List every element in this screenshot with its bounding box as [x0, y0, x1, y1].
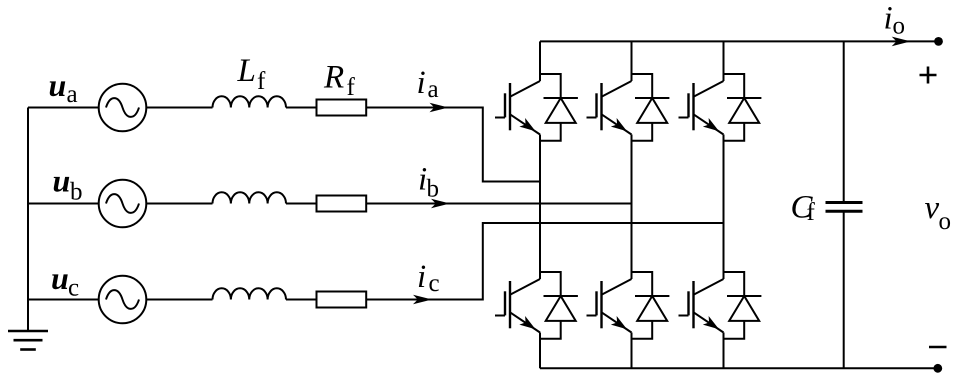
diode antiparallel (lower IGBT leg 2) — [635, 296, 669, 321]
IGBT lower IGBT leg 1 — [495, 271, 540, 340]
IGBT lower IGBT leg 2 — [587, 271, 632, 340]
wire diode bottom to emitter node (lower IGBT leg 2) — [632, 321, 653, 339]
wire leg 3 midpoint vertical — [723, 141, 725, 273]
resistor R_f (phase a) — [317, 100, 367, 116]
IGBT upper IGBT leg 2 — [587, 73, 632, 142]
wire collector node corner to diode top (upper IGBT leg 1) — [540, 74, 561, 98]
wire phase c with jog up to leg 3 midpoint — [366, 223, 723, 300]
svg-text:u: u — [51, 260, 69, 296]
arrow current i_c — [413, 295, 432, 305]
IGBT upper IGBT leg 3 — [679, 73, 724, 142]
svg-text:i: i — [417, 259, 426, 295]
label i_a — [417, 65, 439, 103]
svg-text:u: u — [53, 163, 71, 199]
wire leg 1 midpoint vertical — [539, 141, 541, 273]
node positive output terminal — [934, 37, 943, 46]
wire source to inductor (phase b) — [146, 203, 212, 205]
IGBT upper IGBT leg 1 — [495, 73, 540, 142]
wire leg 3 emitter to bottom bus — [723, 339, 725, 369]
resistor R_f (phase c) — [317, 292, 367, 308]
voltage source u_b — [99, 180, 147, 228]
inductor L_f (phase b) — [213, 192, 287, 203]
diode antiparallel (lower IGBT leg 1) — [544, 296, 578, 321]
svg-text:b: b — [70, 179, 83, 206]
svg-text:i: i — [884, 1, 893, 37]
wire leg 2 midpoint vertical — [631, 141, 633, 273]
inductor L_f (phase a) — [213, 96, 287, 107]
wire left vertical bus — [27, 108, 29, 332]
wire top bus to leg 2 collector — [631, 41, 633, 75]
wire collector node corner to diode top (upper IGBT leg 2) — [632, 74, 653, 98]
wire leg 2 emitter to bottom bus — [631, 339, 633, 369]
wire phase c: left bus to source — [28, 299, 99, 301]
capacitor C_f — [826, 41, 863, 368]
ground — [8, 331, 48, 350]
resistor R_f (phase b) — [317, 196, 367, 212]
label C_f — [791, 189, 816, 226]
diode antiparallel (lower IGBT leg 3) — [727, 296, 761, 321]
label plus terminal — [920, 67, 937, 84]
wire phase a to bridge with jog down to leg 1 midpoint — [366, 108, 540, 182]
svg-text:f: f — [807, 199, 816, 226]
inductor L_f (phase c) — [213, 288, 287, 299]
svg-text:v: v — [925, 190, 940, 226]
wire bottom DC bus — [540, 367, 938, 369]
wire diode bottom to emitter node (upper IGBT leg 2) — [632, 123, 653, 141]
label v_o — [925, 190, 952, 235]
diode antiparallel (upper IGBT leg 1) — [544, 98, 578, 123]
IGBT lower IGBT leg 3 — [679, 271, 724, 340]
wire diode bottom to emitter node (lower IGBT leg 3) — [724, 321, 745, 339]
wire source to inductor (phase c) — [146, 299, 212, 301]
arrow current i_a — [430, 103, 449, 113]
svg-text:b: b — [427, 175, 440, 202]
wire inductor to resistor (phase c) — [286, 299, 317, 301]
label i_b — [418, 162, 439, 203]
wire phase a: left bus to source — [28, 107, 99, 109]
svg-text:c: c — [68, 275, 79, 302]
wire collector node corner to diode top (lower IGBT leg 3) — [724, 272, 745, 296]
svg-text:a: a — [67, 81, 78, 108]
wire top bus to leg 3 collector — [723, 41, 725, 75]
wire phase b straight to leg 2 midpoint — [366, 203, 631, 205]
diode antiparallel (upper IGBT leg 2) — [635, 98, 669, 123]
svg-text:a: a — [428, 76, 439, 103]
wire collector node corner to diode top (upper IGBT leg 3) — [724, 74, 745, 98]
svg-text:i: i — [417, 65, 426, 101]
wire inductor to resistor (phase a) — [286, 107, 317, 109]
wire diode bottom to emitter node (upper IGBT leg 3) — [724, 123, 745, 141]
wire collector node corner to diode top (lower IGBT leg 2) — [632, 272, 653, 296]
label u_a — [49, 67, 78, 108]
wire diode bottom to emitter node (upper IGBT leg 1) — [540, 123, 561, 141]
arrow current i_b — [431, 199, 450, 209]
svg-text:o: o — [939, 208, 952, 235]
label u_c — [51, 260, 79, 302]
svg-text:o: o — [893, 12, 906, 39]
label i_c — [417, 259, 440, 297]
svg-text:f: f — [257, 68, 266, 95]
wire inductor to resistor (phase b) — [286, 203, 317, 205]
wire top bus to leg 1 collector — [539, 41, 541, 75]
voltage source u_c — [99, 276, 147, 324]
wire top DC bus — [540, 40, 939, 42]
label R_f — [323, 60, 356, 102]
voltage source u_a — [99, 84, 147, 132]
diode antiparallel (upper IGBT leg 3) — [727, 98, 761, 123]
wire source to inductor (phase a) — [146, 107, 212, 109]
node negative output terminal — [933, 364, 942, 373]
svg-text:R: R — [323, 60, 344, 96]
label u_b — [53, 163, 83, 206]
wire leg 1 emitter to bottom bus — [539, 339, 541, 369]
label minus terminal — [929, 346, 947, 349]
wire diode bottom to emitter node (lower IGBT leg 1) — [540, 321, 561, 339]
svg-text:f: f — [347, 74, 356, 101]
label i_o — [884, 1, 906, 40]
svg-text:L: L — [237, 53, 256, 89]
wire collector node corner to diode top (lower IGBT leg 1) — [540, 272, 561, 296]
arrow current i_o — [892, 37, 911, 47]
label L_f — [237, 53, 267, 95]
wire phase b: left bus to source — [28, 203, 99, 205]
svg-text:u: u — [49, 67, 67, 103]
svg-text:c: c — [429, 270, 440, 297]
